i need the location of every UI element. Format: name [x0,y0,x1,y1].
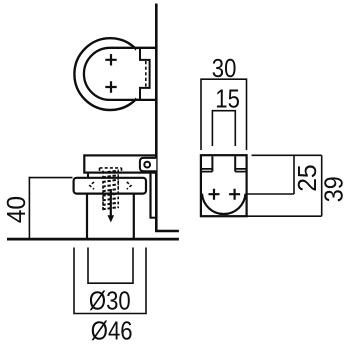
wall line [155,4,158,232]
dim 39 vertical [321,155,323,216]
collar rounded rect [74,178,146,194]
front cross left [209,189,220,200]
hidden chevron left [90,182,94,189]
dim 39 bottom extension [246,215,322,217]
screw cross upper [105,54,116,65]
hook plate side profile (D shape top/bottom lines) [84,48,156,100]
bar-to-wall tick [150,217,157,219]
front view left notch wall [211,156,213,171]
front view right notch double lines [235,169,245,172]
screw thread coil dashed [102,170,118,209]
dim 40 extension line [29,177,73,179]
svg-text:40: 40 [2,196,31,223]
pivot piece rounded [140,158,156,171]
svg-text:30: 30 [212,54,237,83]
dim 25 vertical [293,155,295,194]
hidden chevron right [127,182,131,189]
arm rectangle [84,155,156,172]
svg-text:39: 39 [320,176,348,202]
front view right notch wall [234,156,236,171]
screw cross lower [105,81,116,92]
dim 39 top extension [252,154,322,156]
front cross right [229,189,240,200]
cylinder side right [133,194,135,239]
svg-text:Ø46: Ø46 [91,317,133,346]
dim 15 bracket [212,111,235,146]
svg-text:Ø30: Ø30 [89,287,131,316]
pivot hole [144,162,150,168]
screw axis arrow [110,189,112,216]
front view left notch double lines [202,169,212,172]
front view bottom semicircle [202,194,246,214]
hidden nut dashed [100,168,122,172]
floor line [7,238,179,241]
plate tongue step profile [140,48,150,100]
wall bottom step line [155,230,179,232]
cylinder side left [86,194,88,239]
svg-text:15: 15 [215,85,240,114]
dim Ø46 bracket [74,248,146,314]
front view outer rect [201,155,247,216]
dim 25 horizontal [248,193,295,195]
dim 30 bracket [201,79,247,150]
tongue hidden dashed line [145,61,147,87]
dim Ø30 bracket [88,248,133,284]
dim 40 vertical [28,177,30,239]
hook outer ring (circle clipped by plate) [74,38,155,110]
cylinder hidden tick left [87,174,89,178]
svg-text:25: 25 [293,164,322,191]
hanging bar [149,172,151,218]
